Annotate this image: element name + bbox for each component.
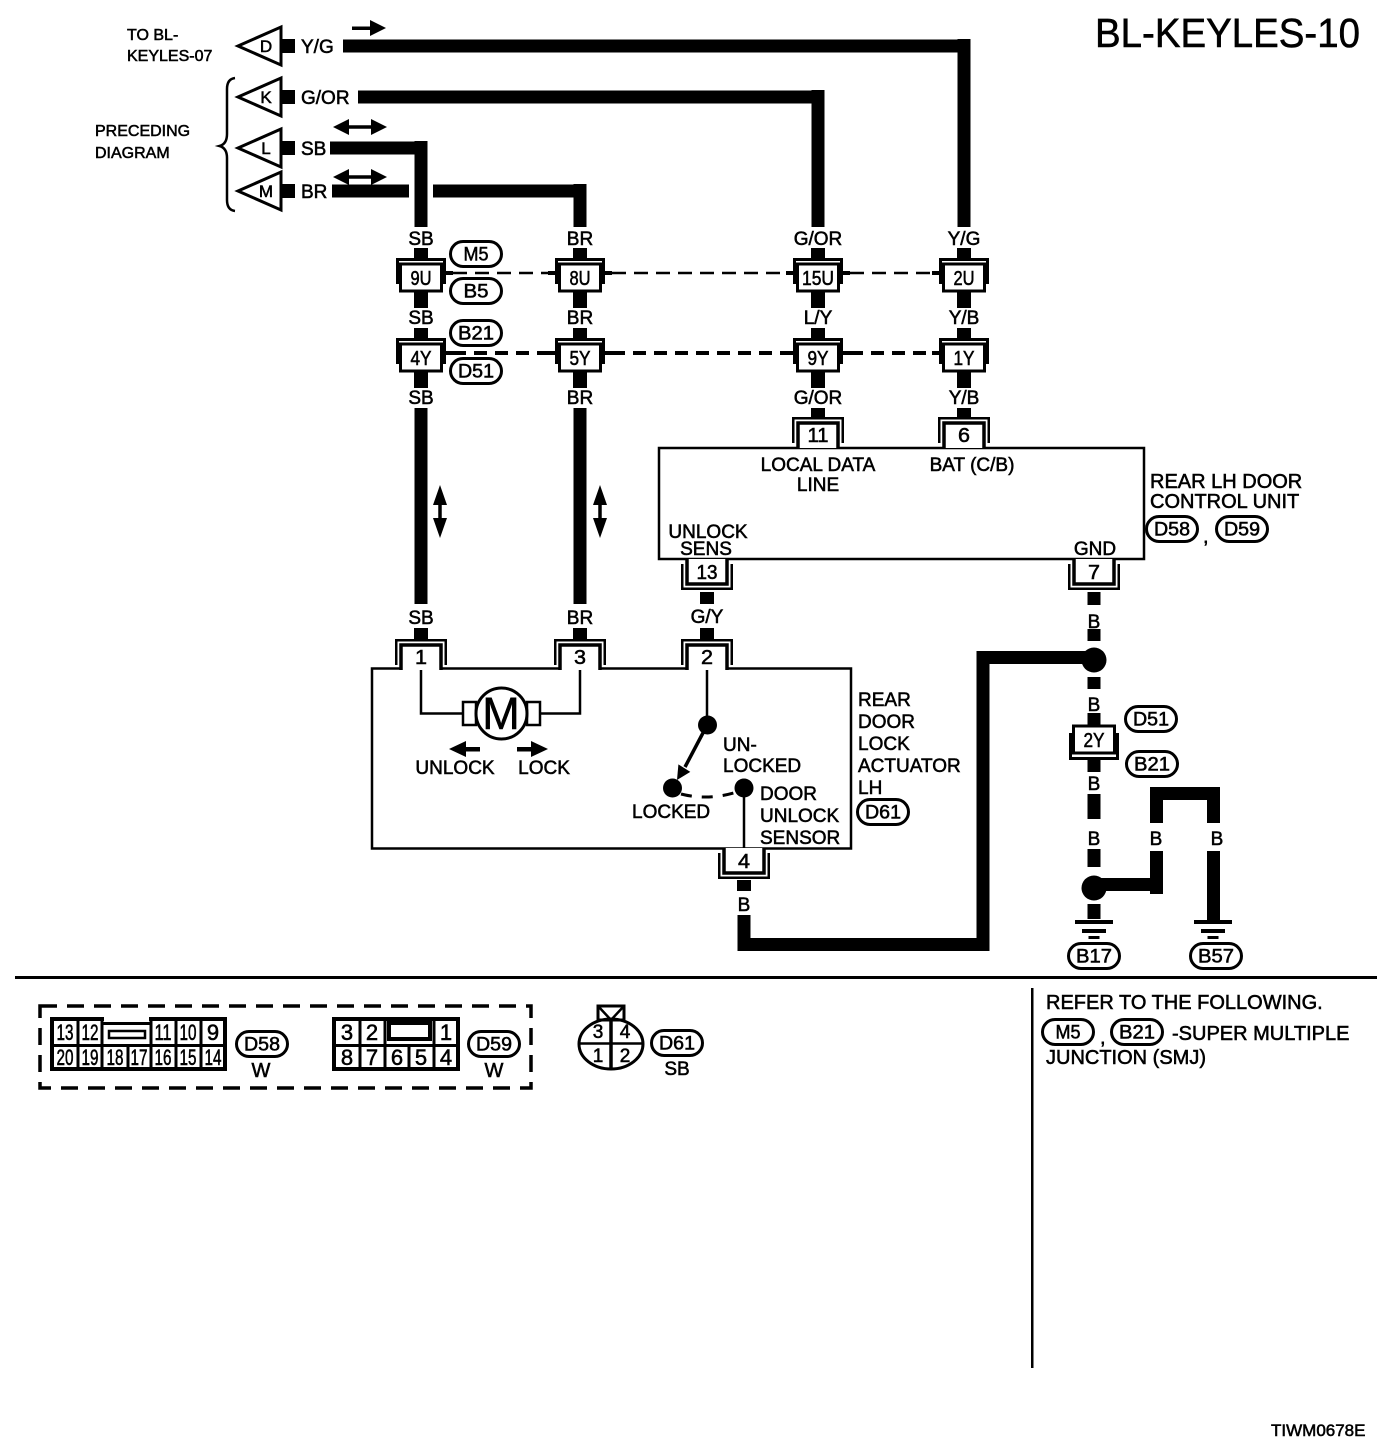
svg-text:3: 3 bbox=[341, 1020, 353, 1045]
svg-text:B: B bbox=[1088, 829, 1101, 850]
svg-text:B: B bbox=[1088, 695, 1101, 716]
svg-text:LOCKED: LOCKED bbox=[723, 756, 801, 777]
svg-text:,: , bbox=[1100, 1027, 1106, 1049]
svg-text:K: K bbox=[260, 88, 272, 107]
svg-text:W: W bbox=[252, 1060, 271, 1082]
svg-text:Y/B: Y/B bbox=[949, 388, 980, 409]
svg-text:B17: B17 bbox=[1076, 947, 1112, 968]
svg-text:REFER TO THE FOLLOWING.: REFER TO THE FOLLOWING. bbox=[1046, 992, 1323, 1014]
svg-text:M: M bbox=[259, 182, 273, 201]
svg-text:SB: SB bbox=[664, 1059, 689, 1080]
svg-text:18: 18 bbox=[107, 1045, 124, 1070]
svg-text:6: 6 bbox=[958, 425, 970, 447]
svg-text:SB: SB bbox=[408, 229, 433, 250]
svg-text:14: 14 bbox=[205, 1045, 222, 1070]
svg-text:2: 2 bbox=[701, 647, 713, 669]
svg-text:9: 9 bbox=[207, 1020, 219, 1045]
svg-text:1: 1 bbox=[415, 647, 427, 669]
svg-text:BR: BR bbox=[567, 308, 593, 329]
svg-text:L/Y: L/Y bbox=[804, 308, 833, 329]
svg-text:BAT (C/B): BAT (C/B) bbox=[930, 455, 1015, 476]
svg-text:3: 3 bbox=[593, 1022, 604, 1043]
svg-text:B: B bbox=[1088, 774, 1101, 795]
svg-text:SB: SB bbox=[408, 388, 433, 409]
svg-text:16: 16 bbox=[155, 1045, 172, 1070]
svg-text:1: 1 bbox=[593, 1046, 604, 1067]
svg-text:B57: B57 bbox=[1198, 947, 1234, 968]
svg-text:7: 7 bbox=[366, 1045, 378, 1070]
svg-text:BR: BR bbox=[567, 388, 593, 409]
svg-text:G/Y: G/Y bbox=[691, 607, 724, 628]
svg-text:15: 15 bbox=[180, 1045, 197, 1070]
svg-text:LH: LH bbox=[858, 778, 882, 799]
svg-text:6: 6 bbox=[391, 1045, 403, 1070]
svg-text:LOCK: LOCK bbox=[858, 734, 910, 755]
svg-text:2U: 2U bbox=[954, 268, 975, 290]
svg-text:B21: B21 bbox=[458, 324, 494, 345]
svg-text:8U: 8U bbox=[570, 268, 591, 290]
svg-text:TIWM0678E: TIWM0678E bbox=[1271, 1421, 1365, 1440]
svg-text:TO BL-: TO BL- bbox=[127, 27, 178, 44]
svg-text:B: B bbox=[1150, 829, 1163, 850]
svg-text:1: 1 bbox=[440, 1020, 452, 1045]
svg-text:4Y: 4Y bbox=[411, 348, 432, 370]
svg-text:UNLOCK: UNLOCK bbox=[415, 758, 495, 779]
svg-text:7: 7 bbox=[1088, 562, 1100, 584]
svg-text:SENS: SENS bbox=[680, 539, 732, 560]
svg-text:10: 10 bbox=[180, 1020, 197, 1045]
svg-text:13: 13 bbox=[57, 1020, 74, 1045]
svg-text:DIAGRAM: DIAGRAM bbox=[95, 145, 170, 162]
svg-text:CONTROL UNIT: CONTROL UNIT bbox=[1150, 491, 1299, 513]
svg-text:-SUPER MULTIPLE: -SUPER MULTIPLE bbox=[1172, 1023, 1349, 1045]
svg-text:UN-: UN- bbox=[723, 735, 757, 756]
svg-text:9Y: 9Y bbox=[808, 348, 829, 370]
svg-text:B21: B21 bbox=[1119, 1023, 1155, 1044]
svg-text:W: W bbox=[485, 1060, 504, 1082]
svg-text:ACTUATOR: ACTUATOR bbox=[858, 756, 961, 777]
svg-text:DOOR: DOOR bbox=[858, 712, 915, 733]
svg-text:REAR: REAR bbox=[858, 690, 911, 711]
svg-text:D58: D58 bbox=[244, 1035, 280, 1056]
svg-text:M: M bbox=[482, 688, 520, 739]
svg-text:11: 11 bbox=[155, 1020, 172, 1045]
svg-text:2Y: 2Y bbox=[1084, 730, 1105, 752]
svg-text:4: 4 bbox=[738, 851, 750, 873]
svg-text:4: 4 bbox=[440, 1045, 452, 1070]
svg-text:4: 4 bbox=[620, 1022, 631, 1043]
svg-text:G/OR: G/OR bbox=[794, 388, 843, 409]
svg-text:SB: SB bbox=[408, 308, 433, 329]
svg-text:D51: D51 bbox=[458, 362, 494, 383]
svg-text:GND: GND bbox=[1074, 539, 1116, 560]
svg-text:D59: D59 bbox=[1224, 520, 1260, 541]
svg-text:DOOR: DOOR bbox=[760, 784, 817, 805]
svg-text:9U: 9U bbox=[411, 268, 432, 290]
svg-text:19: 19 bbox=[82, 1045, 99, 1070]
svg-text:Y/G: Y/G bbox=[301, 37, 334, 58]
svg-text:B: B bbox=[1211, 829, 1224, 850]
svg-text:SB: SB bbox=[408, 608, 433, 629]
svg-text:2: 2 bbox=[366, 1020, 378, 1045]
svg-text:G/OR: G/OR bbox=[301, 88, 350, 109]
svg-text:SENSOR: SENSOR bbox=[760, 828, 840, 849]
svg-text:12: 12 bbox=[82, 1020, 99, 1045]
svg-text:Y/B: Y/B bbox=[949, 308, 980, 329]
svg-text:SB: SB bbox=[301, 139, 326, 160]
svg-text:LOCKED: LOCKED bbox=[632, 802, 710, 823]
svg-text:D58: D58 bbox=[1154, 520, 1190, 541]
svg-text:PRECEDING: PRECEDING bbox=[95, 123, 190, 140]
svg-text:Y/G: Y/G bbox=[948, 229, 981, 250]
svg-text:KEYLES-07: KEYLES-07 bbox=[127, 48, 212, 65]
svg-text:BR: BR bbox=[567, 608, 593, 629]
svg-text:,: , bbox=[1203, 526, 1209, 548]
svg-text:B: B bbox=[738, 895, 751, 916]
svg-text:D51: D51 bbox=[1133, 710, 1169, 731]
svg-text:UNLOCK: UNLOCK bbox=[760, 806, 840, 827]
svg-text:3: 3 bbox=[574, 647, 586, 669]
svg-text:5: 5 bbox=[415, 1045, 427, 1070]
svg-text:LINE: LINE bbox=[797, 475, 839, 496]
svg-text:11: 11 bbox=[808, 425, 829, 447]
svg-text:D: D bbox=[260, 37, 272, 56]
svg-text:BR: BR bbox=[301, 182, 327, 203]
svg-text:BL-KEYLES-10: BL-KEYLES-10 bbox=[1095, 10, 1360, 56]
svg-text:1Y: 1Y bbox=[954, 348, 975, 370]
svg-text:17: 17 bbox=[131, 1045, 148, 1070]
svg-text:D59: D59 bbox=[476, 1035, 512, 1056]
svg-text:2: 2 bbox=[620, 1046, 631, 1067]
svg-text:M5: M5 bbox=[1056, 1023, 1081, 1044]
svg-text:BR: BR bbox=[567, 229, 593, 250]
svg-text:G/OR: G/OR bbox=[794, 229, 843, 250]
svg-text:L: L bbox=[261, 139, 270, 158]
svg-text:D61: D61 bbox=[865, 803, 901, 824]
svg-text:LOCAL DATA: LOCAL DATA bbox=[761, 455, 876, 476]
svg-text:5Y: 5Y bbox=[570, 348, 591, 370]
svg-text:13: 13 bbox=[697, 562, 718, 584]
svg-text:LOCK: LOCK bbox=[518, 758, 570, 779]
svg-text:B21: B21 bbox=[1134, 755, 1170, 776]
svg-text:B5: B5 bbox=[464, 282, 489, 303]
svg-text:20: 20 bbox=[57, 1045, 74, 1070]
svg-text:15U: 15U bbox=[802, 268, 834, 290]
svg-text:D61: D61 bbox=[659, 1034, 695, 1055]
svg-text:JUNCTION (SMJ): JUNCTION (SMJ) bbox=[1046, 1047, 1206, 1069]
svg-text:8: 8 bbox=[341, 1045, 353, 1070]
svg-text:REAR LH DOOR: REAR LH DOOR bbox=[1150, 471, 1302, 493]
svg-text:M5: M5 bbox=[464, 245, 489, 266]
